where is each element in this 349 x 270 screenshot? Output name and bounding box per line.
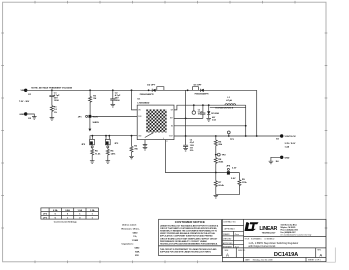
resistor R7 [214, 173, 224, 195]
svg-text:Fax: (408)434-0507: Fax: (408)434-0507 [281, 231, 296, 234]
test point TP1 [227, 131, 234, 141]
ground at E4 [269, 161, 274, 164]
svg-text:7.5V - 36V: 7.5V - 36V [19, 101, 30, 103]
svg-text:TECHNOLOGY APPLICATIONS ENGINE: TECHNOLOGY APPLICATIONS ENGINEERING FOR … [160, 243, 218, 246]
address block [281, 223, 312, 236]
test point circle [192, 105, 195, 114]
logo LT glyph [244, 222, 258, 231]
frame zone ticks bottom [35, 261, 198, 264]
svg-text:LTC Confidential-For Customer: LTC Confidential-For Customer Use Only [281, 233, 312, 236]
svg-text:Current Limit Settings: Current Limit Settings [54, 220, 78, 223]
svg-text:THIS CIRCUIT IS PROPRIETARY TO: THIS CIRCUIT IS PROPRIETARY TO LINEAR TE… [160, 248, 217, 251]
svg-text:1.2A: 1.2A [90, 209, 95, 212]
resistor R9 [238, 173, 248, 195]
svg-text:Unless noted:: Unless noted: [122, 224, 137, 227]
wire FB from U1 [165, 140, 239, 173]
svg-text:A: A [226, 253, 229, 258]
svg-text:115k: 115k [242, 182, 248, 184]
svg-text:CUSTOMER NOTICE: CUSTOMER NOTICE [175, 220, 205, 224]
ground under R4 [106, 161, 111, 164]
svg-text:SUPPLIED FOR USE WITH LINEAR T: SUPPLIED FOR USE WITH LINEAR TECHNOLOGY … [160, 250, 212, 253]
ground under R7 [214, 195, 219, 198]
svg-text:Capacitors:: Capacitors: [122, 243, 134, 246]
capacitor C4 [183, 136, 195, 152]
node D1 top [208, 104, 210, 106]
svg-text:1206: 1206 [115, 100, 121, 102]
notes block [122, 224, 141, 257]
svg-text:0402: 0402 [133, 231, 139, 234]
node FB node [215, 172, 217, 174]
test point TP2 [216, 153, 227, 156]
wire SW pin jog [174, 105, 246, 110]
svg-text:SHEET 1 OF 1: SHEET 1 OF 1 [308, 260, 321, 262]
svg-text:CIRCUIT BOARD LAYOUT MAY SIGNI: CIRCUIT BOARD LAYOUT MAY SIGNIFICANTLY A… [160, 237, 218, 240]
svg-text:4.7µH: 4.7µH [226, 99, 232, 102]
svg-text:X5R,: X5R, [135, 251, 140, 253]
ground under R1 [50, 118, 55, 121]
svg-text:SCHEMATIC:: SCHEMATIC: [251, 238, 262, 241]
svg-text:PERFORMANCE OR RELIABILITY. CO: PERFORMANCE OR RELIABILITY. CONTACT LINE… [160, 240, 207, 243]
svg-text:CIRCUIT THAT MEETS CUSTOMER-SU: CIRCUIT THAT MEETS CUSTOMER-SUPPLIED SPE… [160, 227, 217, 230]
svg-text:VIN: VIN [21, 90, 25, 92]
wire BD pin [174, 125, 246, 127]
svg-text:TITLE:: TITLE: [245, 238, 251, 240]
svg-text:APPLICATION. COMPONENT SUBSTIT: APPLICATION. COMPONENT SUBSTITUTION AND … [160, 235, 213, 238]
svg-text:Resistors: Ohms,: Resistors: Ohms, [122, 228, 141, 231]
resistor R4 [106, 149, 116, 161]
frame zone ticks right [325, 33, 328, 228]
jumper JP2 [81, 136, 94, 150]
title block grid lines [222, 219, 326, 261]
svg-text:GND: GND [19, 114, 24, 116]
svg-text:DATE:: DATE: [245, 259, 250, 262]
wire left lower rail [90, 136, 137, 140]
diode D2 OPT [147, 84, 164, 92]
svg-text:BST: BST [170, 118, 173, 120]
svg-text:TECHNOLOGY: TECHNOLOGY [262, 233, 276, 235]
svg-text:4.7µF: 4.7µF [54, 94, 60, 97]
resistor R6 [214, 136, 223, 155]
wire RUN to U1 [91, 115, 137, 117]
svg-text:1M: 1M [93, 98, 96, 100]
svg-text:3.3V / 5.0V: 3.3V / 5.0V [285, 143, 296, 145]
svg-text:Dave: Dave [235, 234, 239, 236]
svg-text:CONTRACT NO.: CONTRACT NO. [223, 220, 236, 223]
svg-text:CHECKED: CHECKED [223, 239, 232, 241]
wire VIN rail [26, 89, 257, 91]
svg-text:REV.: REV. [317, 249, 321, 251]
frame zone ticks left [1, 33, 4, 228]
svg-text:BD: BD [171, 126, 173, 128]
svg-text:with Output Current Limit: with Output Current Limit [248, 245, 275, 248]
svg-text:DC1419A: DC1419A [274, 252, 298, 258]
capacitor C3 [198, 105, 206, 118]
wire VIN to U1 pin [132, 90, 138, 110]
svg-text:A: A [319, 252, 322, 257]
svg-text:RUN: RUN [138, 116, 141, 118]
resistor R8 [214, 155, 224, 173]
svg-text:5.0V: 5.0V [231, 178, 236, 180]
ground exposed pad U1 [143, 140, 148, 150]
svg-text:20%: 20% [190, 150, 194, 152]
svg-text:17: 17 [166, 141, 168, 143]
node FB divider TP2 [215, 154, 217, 156]
resistor R5 [91, 149, 101, 161]
svg-text:1%: 1% [54, 112, 57, 114]
resistor R3 [89, 90, 97, 115]
title block outer box [222, 219, 326, 261]
svg-text:DFLS240: DFLS240 [211, 112, 219, 115]
svg-text:VOUT/LCK: VOUT/LCK [285, 136, 297, 138]
svg-text:Dave: Dave [235, 246, 239, 248]
SHDN arrow [89, 118, 100, 132]
svg-text:0402: 0402 [135, 247, 141, 250]
svg-text:SHDN: SHDN [93, 122, 100, 124]
svg-text:Monday, June 30, 2008: Monday, June 30, 2008 [253, 260, 273, 262]
ground under C2 [111, 104, 116, 107]
svg-text:0.5A: 0.5A [53, 209, 58, 212]
U1 pin names [138, 110, 173, 144]
svg-text:APPROVALS: APPROVALS [225, 227, 236, 230]
node BST crossing [185, 118, 187, 120]
terminal E4 GND [271, 156, 290, 163]
ground at E2 [32, 117, 37, 120]
terminal E2 GND [19, 112, 34, 120]
svg-text:1.0A: 1.0A [77, 209, 82, 212]
node VIN pin drop [131, 89, 133, 91]
svg-text:D2 OPT: D2 OPT [147, 84, 156, 86]
jumper JP1 [78, 115, 98, 119]
wire rail corner down to output [256, 90, 258, 136]
diode D1 [206, 105, 219, 121]
svg-text:HOWEVER, IT REMAINS THE CUSTOM: HOWEVER, IT REMAINS THE CUSTOMER'S RESPO… [160, 230, 218, 233]
svg-text:147k: 147k [111, 152, 117, 155]
svg-text:APPROVED: APPROVED [223, 242, 233, 245]
ground under R5 [90, 161, 95, 164]
svg-text:VOUT: VOUT [169, 135, 173, 137]
terminal E1 VIN [19, 89, 32, 103]
wire BST pin to C3 [174, 117, 203, 119]
svg-text:DRAWN: DRAWN [223, 233, 230, 236]
svg-text:DWG NO.: DWG NO. [238, 250, 246, 252]
svg-text:1/16W: 1/16W [132, 240, 139, 242]
node C3 top [202, 104, 204, 106]
node R3 junction [89, 89, 91, 91]
node TP stub [193, 104, 195, 106]
node C1 junction [51, 89, 53, 91]
wire SW node down [245, 105, 247, 136]
resistor R2 [130, 136, 139, 157]
svg-text:71.5k: 71.5k [95, 153, 101, 155]
svg-text:D3 OPT: D3 OPT [194, 84, 203, 86]
resistor R1 [50, 106, 57, 118]
svg-text:LINEAR TECHNOLOGY HAS MADE A B: LINEAR TECHNOLOGY HAS MADE A BEST EFFORT… [160, 224, 219, 227]
op-amp U1 LT3693EDD body [137, 99, 174, 140]
capacitor C1 [49, 90, 60, 105]
svg-text:ENGINEER: ENGINEER [223, 246, 233, 248]
current limit settings table [41, 208, 99, 219]
jumper JP3 [105, 136, 119, 150]
svg-text:VIN: VIN [138, 110, 140, 112]
svg-text:LINEAR: LINEAR [259, 226, 277, 232]
svg-text:200k: 200k [218, 162, 224, 164]
svg-text:VERIFY PROPER AND RELIABLE OPE: VERIFY PROPER AND RELIABLE OPERATION IN … [160, 232, 216, 235]
ground under R2 [129, 156, 134, 159]
svg-text:0.8A: 0.8A [65, 209, 70, 212]
node C2 junction [112, 89, 114, 91]
wire fb ground rail [216, 194, 240, 196]
wire output rail [174, 135, 282, 137]
svg-text:LT3693EDD: LT3693EDD [137, 102, 149, 104]
inductor L1 [225, 97, 236, 105]
node output junctions [185, 135, 187, 137]
svg-text:4.7µF: 4.7µF [115, 94, 121, 97]
capacitor C2 [110, 90, 121, 104]
svg-text:GND: GND [138, 135, 141, 137]
svg-text:3.3V: 3.3V [232, 168, 237, 170]
diode D3 OPT [187, 84, 204, 92]
jumper JP4 [226, 165, 237, 181]
svg-text:GND: GND [285, 157, 290, 159]
customer notice box [159, 219, 222, 246]
node lower rail junctions [92, 135, 94, 137]
svg-text:NOTE: 46V MAX TRANSIENT VOLTAG: NOTE: 46V MAX TRANSIENT VOLTAGE [31, 87, 72, 90]
svg-text:C4: C4 [190, 139, 192, 142]
wire BD vertical [185, 90, 187, 136]
svg-text:25V: 25V [135, 255, 139, 257]
svg-text:60.4k: 60.4k [218, 184, 224, 187]
svg-text:1%,: 1%, [133, 236, 137, 238]
page edge artifact bottom right [326, 248, 335, 263]
terminal E3 VOUT [276, 134, 296, 148]
svg-text:LT3693EDD: LT3693EDD [265, 239, 275, 241]
ground under C4 [183, 148, 188, 151]
wire L1 box outline [210, 106, 246, 108]
svg-text:1206: 1206 [54, 100, 60, 102]
svg-text:1.2A: 1.2A [285, 145, 290, 148]
